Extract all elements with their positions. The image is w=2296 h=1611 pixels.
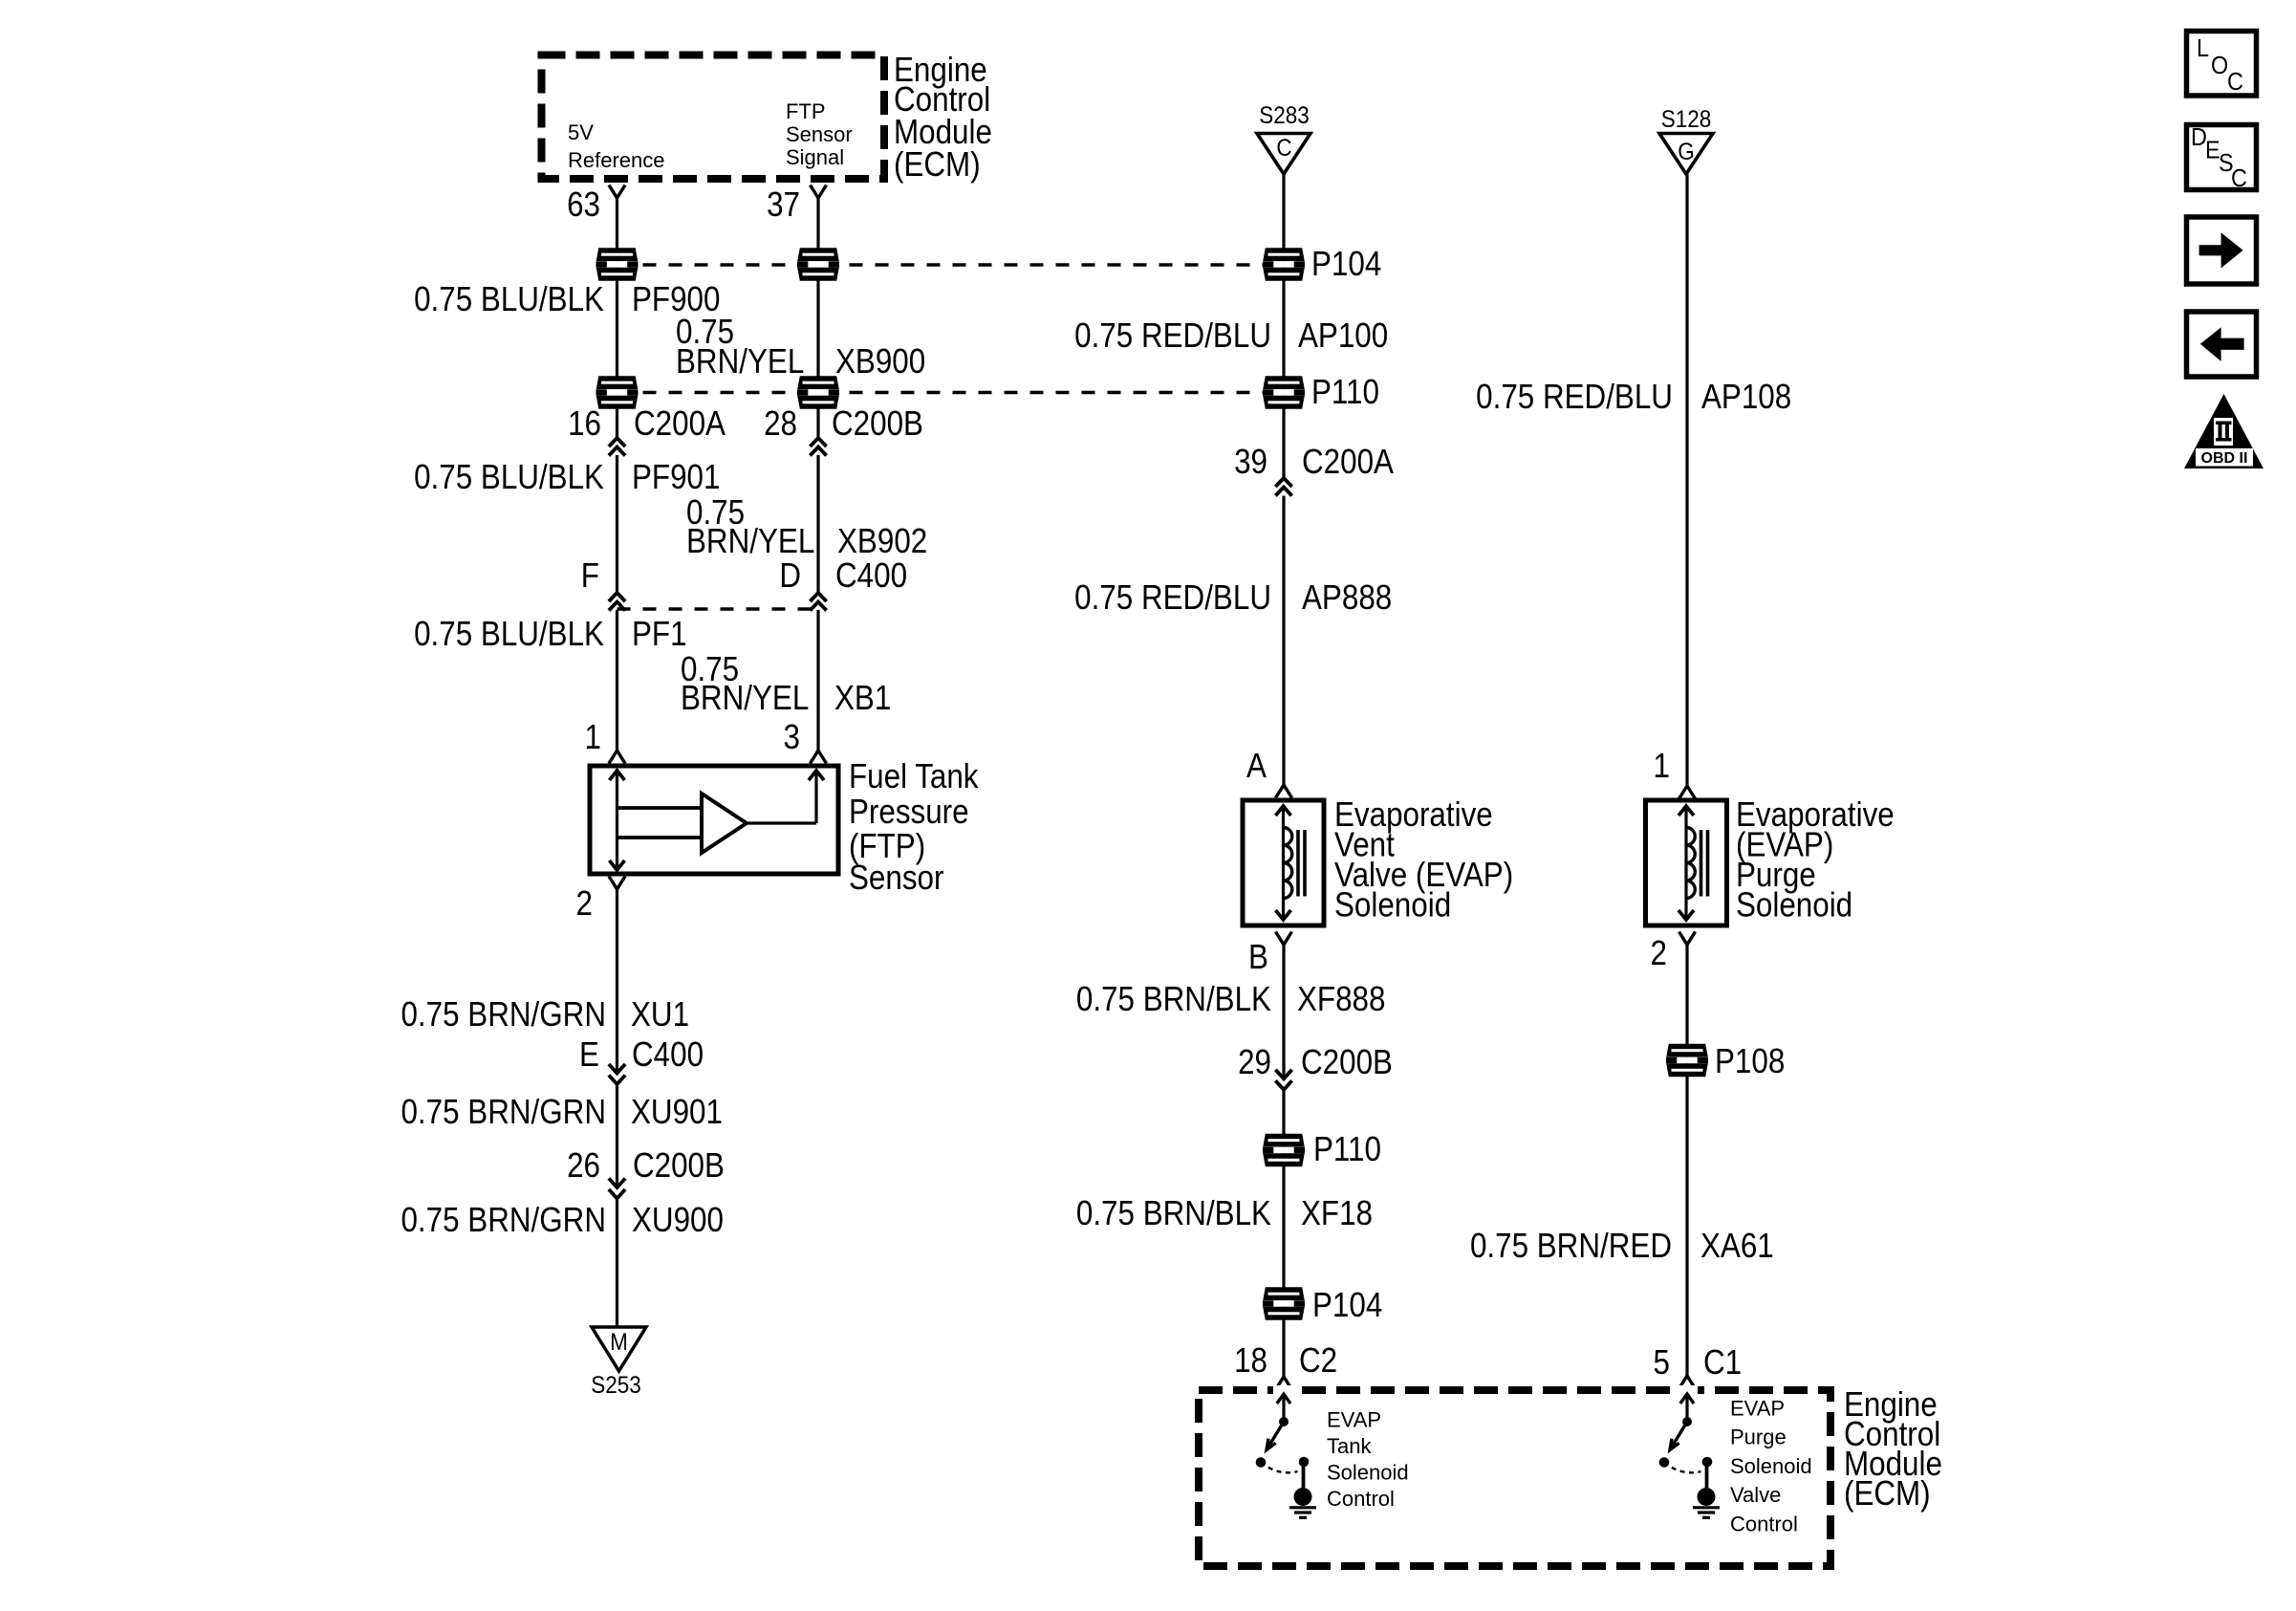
wire XB900 (W2 upper)	[816, 198, 819, 438]
svg-text:C1: C1	[1703, 1343, 1742, 1382]
svg-text:26: 26	[567, 1146, 600, 1186]
dashed connector line P104 level	[617, 263, 1285, 267]
svg-text:P110: P110	[1311, 373, 1379, 412]
terminal fork FTP pin 2	[609, 877, 625, 890]
svg-text:18: 18	[1234, 1341, 1267, 1381]
svg-text:L: L	[2197, 35, 2209, 62]
svg-text:XB902: XB902	[837, 522, 927, 561]
svg-text:B: B	[1248, 938, 1268, 977]
svg-text:C400: C400	[632, 1035, 704, 1075]
svg-text:C400: C400	[835, 556, 907, 596]
svg-text:O: O	[2211, 53, 2228, 79]
pass-through chevrons C200B pin 29	[1275, 1070, 1291, 1079]
svg-text:A: A	[1246, 747, 1267, 786]
wire XF18	[1282, 1090, 1285, 1378]
wire AP100/AP888 (middle column upper)	[1282, 174, 1285, 478]
terminal fork vent solenoid pin B	[1276, 932, 1292, 946]
terminal fork purge solenoid pin 2	[1679, 932, 1696, 946]
EVAP purge solenoid valve control driver switch	[1659, 1394, 1720, 1517]
connector P110 on W2	[797, 376, 839, 408]
svg-text:AP108: AP108	[1701, 378, 1791, 417]
svg-text:0.75 BLU/BLK: 0.75 BLU/BLK	[414, 458, 604, 497]
wire XA61	[1685, 945, 1688, 1376]
FTP internal input line	[616, 769, 618, 870]
pass-through chevrons C200B pin 26	[609, 1179, 625, 1188]
connector P110 lower on middle wire	[1263, 1134, 1305, 1166]
svg-text:AP100: AP100	[1298, 316, 1388, 356]
svg-text:PF1: PF1	[632, 615, 687, 654]
svg-text:Solenoid: Solenoid	[1334, 886, 1451, 925]
terminal fork FTP pin 1	[609, 751, 625, 764]
svg-text:16: 16	[568, 404, 601, 444]
svg-text:(ECM): (ECM)	[894, 145, 981, 185]
svg-text:0.75 BRN/BLK: 0.75 BRN/BLK	[1076, 980, 1272, 1019]
svg-text:Valve: Valve	[1730, 1483, 1781, 1507]
svg-text:Fuel Tank: Fuel Tank	[849, 757, 979, 796]
wire PF901 (W1 mid)	[616, 455, 618, 593]
svg-text:63: 63	[567, 185, 600, 225]
svg-text:37: 37	[767, 185, 800, 225]
svg-text:P108: P108	[1715, 1042, 1785, 1081]
svg-text:XF888: XF888	[1297, 980, 1385, 1019]
wire XB902 (W2 mid)	[816, 455, 819, 593]
ECM module box (bottom)	[1199, 1390, 1830, 1566]
svg-text:5: 5	[1654, 1343, 1670, 1382]
svg-text:XA61: XA61	[1700, 1227, 1774, 1266]
svg-text:Solenoid: Solenoid	[1327, 1461, 1409, 1485]
connector P104 on W2	[797, 248, 839, 280]
svg-text:PF901: PF901	[632, 458, 720, 497]
connector P108	[1666, 1044, 1708, 1077]
wire XU900	[616, 1199, 618, 1327]
pass-through chevrons C400 pin E	[609, 1064, 625, 1074]
pass-through chevrons C400 on W1	[609, 593, 625, 601]
svg-text:0.75 BRN/RED: 0.75 BRN/RED	[1470, 1227, 1672, 1266]
svg-text:Tank: Tank	[1327, 1434, 1372, 1458]
wire XU901	[616, 1084, 618, 1187]
svg-text:0.75 BLU/BLK: 0.75 BLU/BLK	[414, 615, 604, 654]
svg-text:C200B: C200B	[832, 404, 923, 444]
svg-text:BRN/YEL: BRN/YEL	[681, 679, 809, 718]
svg-text:EVAP: EVAP	[1327, 1408, 1381, 1432]
svg-text:XB1: XB1	[834, 679, 891, 718]
svg-text:C: C	[2231, 165, 2247, 192]
svg-text:Solenoid: Solenoid	[1736, 886, 1852, 925]
icon right-arrow box	[2187, 217, 2257, 284]
connector P110 on middle wire	[1263, 376, 1305, 408]
svg-text:5V: 5V	[568, 120, 594, 144]
svg-text:C200B: C200B	[633, 1146, 725, 1186]
terminal fork pin 63	[609, 185, 625, 199]
dashed connector line C400 level	[617, 607, 819, 611]
ECM module box (top)	[542, 55, 885, 180]
svg-text:28: 28	[764, 404, 797, 444]
icon LOC box	[2187, 32, 2257, 97]
svg-text:S128: S128	[1661, 106, 1712, 133]
svg-text:0.75 BRN/BLK: 0.75 BRN/BLK	[1076, 1194, 1272, 1233]
svg-text:2: 2	[1651, 934, 1667, 973]
svg-text:XU1: XU1	[631, 995, 689, 1034]
terminal fork FTP pin 3	[811, 751, 827, 764]
svg-text:XU901: XU901	[631, 1093, 723, 1132]
terminal fork vent solenoid pin A	[1276, 785, 1292, 798]
svg-text:0.75 RED/BLU: 0.75 RED/BLU	[1476, 378, 1673, 417]
svg-text:2: 2	[576, 884, 593, 924]
svg-text:(ECM): (ECM)	[1844, 1474, 1931, 1513]
svg-text:Pressure: Pressure	[849, 793, 969, 832]
svg-text:Sensor: Sensor	[786, 122, 853, 146]
svg-text:Control: Control	[1327, 1487, 1395, 1511]
svg-text:AP888: AP888	[1302, 578, 1392, 618]
connector P104 on W1	[596, 248, 639, 280]
svg-text:P110: P110	[1313, 1130, 1381, 1169]
svg-text:0.75 BLU/BLK: 0.75 BLU/BLK	[414, 280, 604, 319]
svg-text:BRN/YEL: BRN/YEL	[686, 522, 814, 561]
svg-text:Purge: Purge	[1730, 1426, 1787, 1449]
connector P110 on W1	[596, 376, 639, 408]
wire PF1 (W1 lower)	[616, 610, 618, 751]
terminal fork ECM pin 18	[1276, 1377, 1292, 1390]
svg-text:3: 3	[784, 718, 800, 757]
svg-text:Control: Control	[1730, 1513, 1798, 1536]
svg-text:1: 1	[1654, 747, 1670, 786]
svg-text:C: C	[2227, 69, 2243, 96]
svg-text:0.75 RED/BLU: 0.75 RED/BLU	[1074, 578, 1271, 618]
FTP internal branch wires	[617, 806, 703, 810]
svg-text:C: C	[1276, 135, 1291, 162]
pass-through chevrons C200B on W2	[810, 438, 826, 446]
svg-text:C200B: C200B	[1301, 1043, 1393, 1082]
EVAP purge solenoid	[1646, 800, 1727, 925]
connector P104 on middle wire	[1263, 248, 1305, 280]
icon left-arrow box	[2187, 312, 2257, 377]
svg-text:M: M	[610, 1329, 628, 1356]
svg-text:P104: P104	[1312, 1286, 1382, 1325]
svg-text:Signal: Signal	[786, 145, 844, 169]
svg-text:S253: S253	[591, 1372, 641, 1399]
dashed connector line P110 level	[617, 391, 1285, 395]
svg-text:0.75 BRN/GRN: 0.75 BRN/GRN	[401, 1093, 606, 1132]
svg-text:Sensor: Sensor	[849, 859, 943, 898]
svg-text:D: D	[779, 556, 801, 596]
connector P104 lower on middle wire	[1263, 1287, 1305, 1319]
pass-through chevrons C200A on W1	[609, 438, 625, 446]
EVAP vent valve solenoid	[1243, 800, 1324, 925]
pass-through chevrons C400 on W2	[810, 593, 826, 601]
svg-text:C2: C2	[1299, 1341, 1337, 1381]
svg-text:C200A: C200A	[634, 404, 726, 444]
wire XF888	[1282, 945, 1285, 1078]
wire PF900 (W1 upper)	[616, 198, 618, 438]
svg-text:0.75 RED/BLU: 0.75 RED/BLU	[1074, 316, 1271, 356]
svg-text:XU900: XU900	[632, 1201, 724, 1240]
svg-text:1: 1	[585, 718, 601, 757]
svg-text:G: G	[1678, 139, 1695, 165]
FTP op-amp symbol	[702, 794, 747, 853]
terminal fork purge solenoid pin 1	[1679, 786, 1696, 799]
wire AP108 (right column)	[1685, 174, 1688, 786]
svg-text:OBD II: OBD II	[2201, 450, 2248, 467]
icon OBD II triangle	[2184, 394, 2264, 468]
svg-text:XF18: XF18	[1301, 1194, 1373, 1233]
svg-text:39: 39	[1234, 443, 1267, 482]
wire XB1 (W2 lower)	[816, 610, 819, 751]
svg-text:29: 29	[1238, 1043, 1271, 1082]
svg-text:E: E	[579, 1035, 599, 1075]
terminal fork pin 37	[811, 185, 827, 199]
FTP output wire	[747, 821, 816, 824]
icon DESC box	[2187, 125, 2257, 190]
svg-text:EVAP: EVAP	[1730, 1397, 1785, 1421]
svg-text:C200A: C200A	[1302, 443, 1394, 482]
svg-text:XB900: XB900	[835, 342, 925, 381]
svg-text:0.75 BRN/GRN: 0.75 BRN/GRN	[401, 1201, 606, 1240]
FTP sensor box U1	[590, 766, 838, 874]
svg-text:F: F	[581, 556, 599, 596]
svg-text:Reference: Reference	[568, 148, 665, 172]
pass-through chevrons C200A pin 39	[1275, 478, 1291, 487]
EVAP tank solenoid control driver switch	[1256, 1394, 1316, 1517]
svg-text:FTP: FTP	[786, 99, 826, 123]
wire AP888 lower	[1282, 496, 1285, 786]
terminal fork ECM pin 5	[1679, 1376, 1696, 1389]
svg-text:S283: S283	[1259, 102, 1310, 129]
wire XU1 (below FTP sensor)	[616, 889, 618, 1074]
ground splice S253	[592, 1327, 646, 1371]
svg-text:BRN/YEL: BRN/YEL	[676, 342, 804, 381]
svg-text:P104: P104	[1311, 245, 1381, 284]
svg-text:Solenoid: Solenoid	[1730, 1454, 1812, 1478]
svg-text:0.75 BRN/GRN: 0.75 BRN/GRN	[401, 995, 606, 1034]
